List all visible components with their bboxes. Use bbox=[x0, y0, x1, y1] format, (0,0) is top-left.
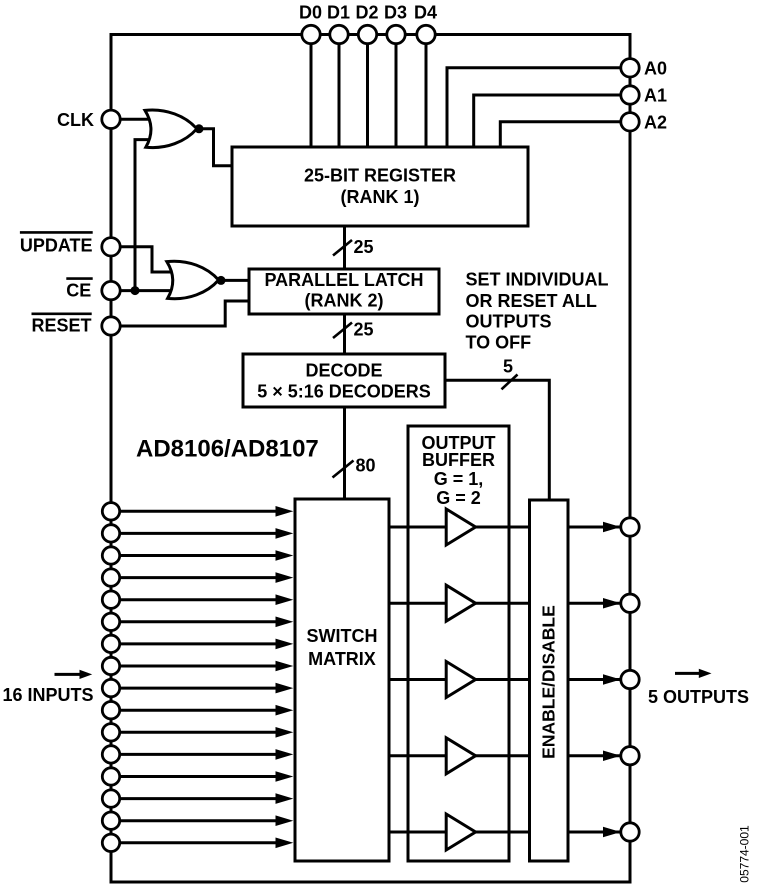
svg-text:TO OFF: TO OFF bbox=[466, 333, 532, 353]
svg-text:DECODE: DECODE bbox=[305, 360, 382, 380]
pin input 5 bbox=[102, 591, 119, 608]
wire input 1 bbox=[121, 510, 277, 513]
wire UPDATE to gate G2 bbox=[121, 247, 177, 272]
junction dot G1 output bbox=[195, 124, 204, 133]
arrow 16 inputs bbox=[55, 673, 82, 676]
svg-text:ENABLE/DISABLE: ENABLE/DISABLE bbox=[539, 605, 559, 759]
arrow 5 outputs bbox=[675, 672, 701, 675]
wire buffer row 5 bbox=[389, 831, 530, 834]
wire CLK to gate G1 bbox=[121, 118, 156, 121]
bus slash 25 rank1 bbox=[333, 240, 352, 256]
wire input 2 bbox=[121, 532, 277, 535]
wire input 13 bbox=[121, 775, 277, 778]
pin A0 bbox=[621, 59, 639, 77]
pin input 6 bbox=[102, 613, 119, 630]
wire input 12 bbox=[121, 753, 277, 756]
overline CE bbox=[66, 277, 92, 280]
buffer amp 4 bbox=[446, 738, 475, 774]
wire input 3 bbox=[121, 554, 277, 557]
buffer amp 2 bbox=[446, 585, 475, 621]
pin A1 bbox=[621, 86, 639, 104]
svg-text:80: 80 bbox=[356, 455, 376, 475]
svg-text:D4: D4 bbox=[414, 2, 437, 22]
wire bus25 register to latch bbox=[343, 226, 346, 269]
decode box U3 bbox=[243, 354, 445, 407]
svg-text:SWITCH: SWITCH bbox=[307, 626, 378, 646]
wire input 8 bbox=[121, 665, 277, 668]
pin A2 bbox=[621, 113, 639, 131]
output buffer box U5 bbox=[408, 426, 509, 861]
wire input 15 bbox=[121, 819, 277, 822]
pin D0 bbox=[302, 25, 320, 43]
wire D1 stub bbox=[338, 35, 341, 148]
svg-text:D0: D0 bbox=[299, 2, 322, 22]
wire input 4 bbox=[121, 576, 277, 579]
pin output 5 bbox=[621, 823, 639, 841]
svg-text:PARALLEL LATCH: PARALLEL LATCH bbox=[265, 270, 424, 290]
svg-text:AD8106/AD8107: AD8106/AD8107 bbox=[136, 436, 319, 463]
bus slash 80 bbox=[333, 461, 354, 478]
svg-text:05774-001: 05774-001 bbox=[738, 825, 752, 883]
svg-text:CLK: CLK bbox=[57, 110, 94, 130]
svg-text:25: 25 bbox=[354, 319, 374, 339]
overline UPDATE bbox=[20, 231, 93, 234]
pin output 2 bbox=[621, 594, 639, 612]
pin D3 bbox=[387, 25, 405, 43]
pin output 1 bbox=[621, 518, 639, 536]
pin input 2 bbox=[102, 525, 119, 542]
svg-text:A2: A2 bbox=[644, 113, 667, 133]
svg-text:SET INDIVIDUAL: SET INDIVIDUAL bbox=[466, 269, 609, 289]
switch matrix box U4 bbox=[295, 499, 389, 861]
wire buffer row 3 bbox=[389, 678, 530, 681]
wire input 14 bbox=[121, 797, 277, 800]
svg-text:CE: CE bbox=[66, 280, 91, 300]
wire CE to gate G2 bbox=[121, 289, 177, 292]
pin input 1 bbox=[102, 503, 119, 520]
pin input 14 bbox=[102, 790, 119, 807]
wire A1 to register bbox=[474, 95, 621, 147]
pin UPDATE bbox=[102, 238, 120, 256]
pin input 8 bbox=[102, 657, 119, 674]
bus slash 5 bbox=[502, 375, 518, 390]
wire input 16 bbox=[121, 841, 277, 844]
pin input 15 bbox=[102, 812, 119, 829]
svg-text:UPDATE: UPDATE bbox=[20, 236, 93, 256]
wire A2 to register bbox=[500, 122, 620, 147]
junction dot G2 output bbox=[217, 276, 226, 285]
or-gate G2 bbox=[167, 261, 219, 299]
svg-text:BUFFER: BUFFER bbox=[422, 450, 495, 470]
buffer amp 5 bbox=[446, 814, 475, 850]
or-gate G1 bbox=[145, 110, 197, 148]
wire input 9 bbox=[121, 687, 277, 690]
wire D0 stub bbox=[310, 35, 313, 148]
svg-text:A0: A0 bbox=[644, 59, 667, 79]
wire buffer row 1 bbox=[389, 526, 530, 529]
wire input 6 bbox=[121, 620, 277, 623]
wire buffer row 2 bbox=[389, 602, 530, 605]
pin CLK bbox=[102, 110, 120, 128]
svg-text:G = 1,: G = 1, bbox=[434, 469, 484, 489]
buffer amp 1 bbox=[446, 509, 475, 545]
svg-text:25: 25 bbox=[354, 237, 374, 257]
wire buffer row 4 bbox=[389, 754, 530, 757]
pin input 12 bbox=[102, 746, 119, 763]
svg-text:D1: D1 bbox=[327, 2, 350, 22]
svg-text:16 INPUTS: 16 INPUTS bbox=[3, 685, 94, 705]
wire input 10 bbox=[121, 709, 277, 712]
pin input 4 bbox=[102, 569, 119, 586]
enable/disable box U6 bbox=[530, 500, 569, 861]
wire G1 output to register bbox=[197, 129, 233, 166]
wire D4 stub bbox=[425, 35, 428, 148]
svg-text:D3: D3 bbox=[384, 2, 407, 22]
wire bus80 decode to switch matrix bbox=[343, 407, 346, 499]
pin D4 bbox=[417, 25, 435, 43]
wire input 11 bbox=[121, 731, 277, 734]
junction dot CE line bbox=[131, 286, 140, 295]
svg-text:5 × 5:16 DECODERS: 5 × 5:16 DECODERS bbox=[257, 382, 431, 402]
svg-text:5: 5 bbox=[503, 357, 513, 377]
outer chip border bbox=[111, 35, 630, 883]
wire RESET to parallel latch bbox=[121, 301, 250, 326]
wire A0 to register bbox=[447, 68, 621, 147]
pin output 3 bbox=[621, 670, 639, 688]
wire CE junction to gate G1 lower input bbox=[135, 140, 155, 291]
pin output 4 bbox=[621, 747, 639, 765]
wire bus5 decode to enable/disable bbox=[445, 380, 549, 500]
svg-text:G = 2: G = 2 bbox=[436, 488, 481, 508]
pin input 9 bbox=[102, 679, 119, 696]
svg-text:25-BIT REGISTER: 25-BIT REGISTER bbox=[304, 165, 456, 185]
25-bit register box U1 bbox=[232, 147, 528, 226]
svg-text:MATRIX: MATRIX bbox=[308, 649, 376, 669]
pin D2 bbox=[358, 25, 376, 43]
buffer amp 3 bbox=[446, 662, 475, 698]
overline RESET bbox=[32, 312, 92, 315]
svg-text:(RANK 2): (RANK 2) bbox=[305, 291, 384, 311]
svg-text:D2: D2 bbox=[356, 2, 379, 22]
parallel latch box U2 bbox=[249, 269, 439, 314]
pin input 13 bbox=[102, 768, 119, 785]
svg-text:5 OUTPUTS: 5 OUTPUTS bbox=[648, 687, 749, 707]
pin CE bbox=[102, 281, 120, 299]
wire input 7 bbox=[121, 642, 277, 645]
svg-text:A1: A1 bbox=[644, 86, 667, 106]
bus slash 25 rank2 bbox=[333, 323, 352, 339]
wire input 5 bbox=[121, 598, 277, 601]
pin input 11 bbox=[102, 724, 119, 741]
pin input 16 bbox=[102, 834, 119, 851]
wire D3 stub bbox=[395, 35, 398, 148]
wire D2 stub bbox=[366, 35, 369, 148]
pin input 3 bbox=[102, 547, 119, 564]
wire bus25 latch to decode bbox=[343, 314, 346, 354]
svg-text:RESET: RESET bbox=[32, 315, 92, 335]
pin D1 bbox=[330, 25, 348, 43]
svg-text:OUTPUTS: OUTPUTS bbox=[466, 312, 552, 332]
wire G2 output to latch bbox=[218, 279, 250, 282]
pin RESET bbox=[102, 317, 120, 335]
svg-text:(RANK 1): (RANK 1) bbox=[341, 187, 420, 207]
pin input 10 bbox=[102, 702, 119, 719]
svg-text:OR RESET ALL: OR RESET ALL bbox=[466, 291, 597, 311]
pin input 7 bbox=[102, 635, 119, 652]
